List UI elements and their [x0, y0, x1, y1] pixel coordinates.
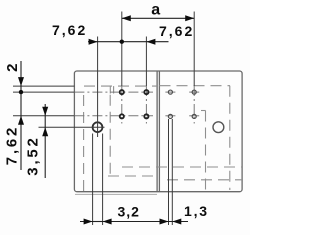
svg-text:7,62: 7,62	[4, 125, 21, 165]
svg-text:2: 2	[4, 62, 21, 72]
svg-text:a: a	[151, 1, 161, 18]
svg-text:3,52: 3,52	[25, 135, 42, 175]
svg-text:3,2: 3,2	[118, 204, 140, 220]
svg-text:7,62: 7,62	[159, 23, 194, 39]
svg-text:1,3: 1,3	[184, 203, 209, 219]
svg-text:7,62: 7,62	[52, 22, 87, 38]
